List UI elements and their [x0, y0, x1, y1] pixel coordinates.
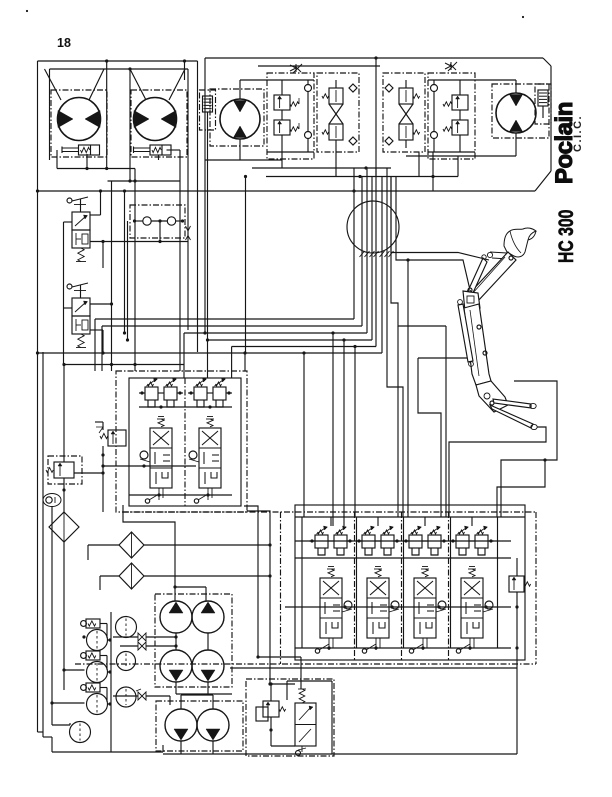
funnel above motor M1 — [45, 69, 62, 100]
wire bank feed x344 — [342, 338, 345, 341]
wire bank4 bottom solid — [230, 667, 517, 669]
wire motor block vertical M2 right — [184, 61, 186, 80]
excavator boom upper — [464, 304, 491, 385]
wire fan drop x245 — [244, 353, 246, 371]
wire fan drop x231 — [231, 347, 233, 379]
motor M1 — [58, 98, 101, 141]
wire pump P1 to blocks — [239, 80, 241, 99]
wire stairs E step — [418, 358, 441, 517]
lever valve V2 — [67, 284, 72, 289]
wire motor block center vertical 1 — [106, 61, 108, 169]
bottom box dash-dot enclosure — [246, 679, 334, 756]
wire x63 vertical upper — [63, 222, 65, 365]
bank4 bottom bus — [295, 647, 511, 649]
wire right assembly drop x419 — [418, 152, 420, 177]
pump P2 — [496, 93, 536, 133]
filter F2 diamond — [119, 532, 144, 558]
compensator unit W2 — [86, 651, 100, 660]
drain filter D2 — [538, 90, 548, 106]
wire x122 vertical — [124, 191, 126, 333]
wire bank2 out elbow B — [247, 511, 270, 517]
wire stairs A drop x398 — [397, 326, 399, 517]
svg-text:HC 300: HC 300 — [554, 210, 578, 263]
wire stairs A drop x446 — [445, 326, 447, 517]
wire bus y181 — [108, 180, 181, 182]
wire gauges to pumps — [113, 636, 138, 638]
wire filter F3 line — [100, 575, 119, 577]
brake valve B2 — [150, 145, 171, 155]
pump pair G3 (down) — [165, 709, 197, 741]
gauge T3 — [116, 687, 136, 707]
wire y657 jog — [258, 656, 301, 658]
wire pump G1-G2 links — [175, 633, 177, 650]
wire bundle right stairs A — [391, 258, 446, 326]
wire assembly bottom bus 2 — [281, 152, 283, 168]
port circle L1 top — [305, 85, 312, 92]
wire vertical x180 down — [179, 150, 181, 371]
wire drop x245 upper — [245, 177, 247, 354]
gauge T2 — [117, 652, 136, 671]
wire pump G2 out — [175, 682, 177, 694]
wire R1 internal — [459, 80, 461, 95]
relief valve R1a — [452, 95, 468, 110]
excavator bucket cylinder — [468, 258, 487, 295]
bank4 bus under reliefs — [295, 557, 511, 559]
wire fan drop x207 — [207, 340, 209, 378]
crossover block R2 enclosure — [383, 73, 425, 152]
bank2 outer dash-dot enclosure — [116, 371, 247, 512]
bank4 bus top — [295, 540, 511, 542]
wire R2 cross — [399, 104, 413, 124]
filter F3 diamond — [119, 563, 144, 589]
crossover mark right — [445, 63, 451, 69]
wire bank2 pilot line — [103, 465, 196, 467]
bottom box inner frame — [287, 680, 332, 682]
wire inner box left — [49, 69, 51, 160]
excavator boom cylinder — [458, 304, 473, 362]
wire bottom pump bus — [110, 612, 112, 752]
wire assemblies outer box — [205, 57, 543, 59]
bottom relief valve — [263, 701, 279, 717]
excavator boom elbow — [476, 381, 508, 412]
wire bundle right stairs B — [391, 177, 489, 261]
wire motor block center vertical 2 — [129, 69, 131, 181]
wire left feed lines — [51, 507, 53, 725]
crossover block L2 enclosure — [317, 73, 359, 152]
wire right stairs E — [418, 357, 473, 359]
wire junction dots left — [36, 189, 39, 192]
wire L2 cross — [329, 104, 343, 124]
gauge bottom — [70, 722, 91, 743]
motor M2 — [134, 98, 177, 141]
wire fan drop x184 — [183, 333, 185, 378]
wire vertical x135 down — [134, 169, 136, 372]
wire top-left outer box right — [197, 61, 199, 352]
check valve K3 — [138, 692, 146, 700]
valve R2b — [399, 124, 413, 140]
wire right wrap vertical — [550, 66, 552, 171]
wire right stairs G3 — [497, 460, 545, 517]
wire filter F2 line — [88, 544, 119, 546]
wire bus y168 — [57, 168, 135, 170]
dash-dot enclosure motor M2 — [131, 90, 187, 157]
wire oval bottom elbow — [52, 724, 70, 726]
wire right stairs G1 — [501, 381, 557, 517]
bank4 valve 4 — [458, 527, 468, 534]
wire bank2 out elbow A — [244, 506, 258, 512]
wire pump G3 feeds — [180, 695, 182, 709]
wire inner box top — [50, 68, 189, 70]
bank4 outer dash-dot bottom — [75, 663, 536, 665]
wire inner box right — [187, 69, 189, 330]
wire brake B1 drop — [86, 154, 88, 169]
wire assemblies outer top second — [258, 65, 380, 67]
wire long horizontal y191 — [38, 190, 536, 192]
wire assembly bottom bus 3 — [335, 148, 337, 177]
pressure reducer upper-left — [54, 462, 74, 478]
wire bank feed x355 — [353, 345, 356, 348]
wire extra relief top — [516, 558, 518, 576]
wire bank2 verticals inside — [184, 378, 186, 506]
bank2 valve 1 — [147, 379, 157, 386]
wire bank4 feed drop x333 — [331, 331, 334, 334]
bottom valve pilot — [301, 746, 303, 752]
crossover mark left — [290, 65, 296, 71]
wire extra relief drop — [516, 592, 518, 754]
svg-text:C.I.C.: C.I.C. — [572, 115, 584, 152]
pump pair G2 (down) — [160, 650, 192, 682]
filter F1 diamond — [49, 512, 79, 542]
check valve K2 — [138, 642, 146, 650]
port circle R1 bottom — [431, 132, 438, 139]
page speck top-left — [26, 10, 28, 12]
wire lever valve V2 connections — [90, 303, 112, 305]
excavator joint cluster — [463, 291, 480, 311]
port circle L1 bottom — [305, 132, 312, 139]
wire bank2 bottom bus — [129, 494, 232, 496]
wire stairs A drop x304 — [302, 351, 305, 354]
wire right stairs C — [396, 177, 470, 291]
bank4 extra relief — [509, 576, 524, 592]
wire lever valve V1 connections — [90, 214, 101, 216]
bank4 inner top line — [295, 516, 525, 518]
wire bottom horizontals — [52, 751, 163, 753]
wire cw left rail — [82, 635, 85, 638]
wire reducer connections — [102, 446, 104, 512]
compensator unit W1 — [86, 619, 100, 628]
wire vertical x57 — [56, 150, 58, 169]
wire right assembly drop x458 — [457, 156, 459, 177]
svg-text:18: 18 — [57, 36, 71, 50]
port circle R1 top — [431, 85, 438, 92]
wire left tank line vertical — [37, 61, 39, 732]
lever valve V1 — [67, 198, 72, 203]
bank4 solid walls — [301, 517, 303, 648]
relief valve L1b — [274, 120, 290, 135]
pump pair G1 (up) — [160, 601, 192, 633]
wire x301 drop to spring — [300, 657, 302, 689]
bank4 outer dash-dot top — [123, 511, 536, 513]
pump group G1 enclosure — [155, 594, 232, 687]
dash-dot enclosure motor M1 — [51, 90, 107, 157]
funnel above motor M2 — [130, 69, 146, 100]
valve L2a — [329, 88, 343, 104]
wire left fan lines — [353, 258, 355, 319]
wire fan drop x102 — [101, 326, 103, 371]
pump group G3 enclosure — [156, 701, 243, 751]
wire drop x258 lower — [257, 512, 259, 657]
port diamond L2 top — [349, 84, 357, 92]
wire gauge drain y241 — [90, 241, 188, 243]
bank4 outer dash-dot right — [535, 512, 537, 664]
bank4 valve 3 — [411, 527, 421, 534]
compensator unit W3 — [86, 683, 100, 692]
excavator stick cylinder 2 — [490, 405, 533, 428]
wire lever valves left ports — [64, 221, 73, 223]
port diamond L2 bottom — [349, 137, 357, 145]
wire bottom long horizontal — [163, 753, 517, 755]
wire bank2 bus top — [139, 406, 232, 408]
wire assembly bottom bus 1 — [205, 159, 240, 161]
wire right wrap chamfer bottom — [535, 171, 551, 191]
wire pump P2 to blocks — [515, 80, 517, 93]
pump P1 dash-dot enclosure — [210, 89, 264, 146]
bank4 valve 1 — [317, 527, 327, 534]
valve R2a — [399, 88, 413, 104]
excavator bucket — [504, 228, 536, 257]
gauge oval — [43, 494, 61, 507]
excavator stick cylinder 1 — [493, 399, 531, 408]
wire fan drop x95 — [94, 319, 96, 371]
bank4 solid frame — [295, 505, 525, 660]
wire pump G1 feeds — [123, 505, 175, 601]
wire right wrap chamfer top — [543, 58, 551, 66]
bank4 separators — [354, 512, 356, 660]
wire gauge ports line — [135, 220, 143, 222]
port diamond R2 bottom — [385, 137, 393, 145]
wire bus y364 — [64, 364, 184, 366]
relief valve L1a — [274, 95, 290, 110]
bank2 inner enclosure — [129, 378, 241, 506]
wire right stairs D — [387, 258, 403, 517]
wire filter F1 vert — [63, 542, 65, 690]
brake valve B1 — [79, 145, 100, 155]
wire filter left verticals — [87, 545, 89, 560]
bank4 valve 2 — [364, 527, 374, 534]
gauge T1 — [116, 617, 137, 638]
check valve K1 — [138, 633, 146, 641]
swivel joint circle — [347, 201, 399, 253]
bank2 pressure reducer — [108, 430, 126, 446]
pump P1 — [220, 99, 260, 139]
wire right stairs G2 — [449, 427, 546, 517]
wire reducer vert — [63, 365, 65, 463]
gauge ports enclosure — [130, 205, 185, 238]
wire L1 internal — [281, 80, 283, 95]
wire bundle verticals — [353, 168, 355, 258]
wire brake B2 drop — [167, 149, 181, 151]
wire bundle feed from top box — [374, 56, 377, 59]
gauge port circle 1 — [143, 217, 151, 225]
vent mark V — [186, 226, 191, 231]
wire right assembly drop x433 — [432, 152, 434, 191]
wire bank4 top stubs — [330, 517, 332, 526]
page speck top-right — [522, 16, 524, 18]
drain filter D1 — [203, 96, 213, 112]
gauge port circle 2 — [167, 217, 175, 225]
valve L2b — [329, 124, 343, 140]
wire pump G3 out — [180, 741, 182, 754]
wire drop x269 to bottom box — [269, 517, 271, 684]
wire top-left outer box top — [38, 60, 198, 62]
wire bottom box connections — [270, 684, 272, 701]
excavator bucket linkage — [490, 252, 507, 253]
bank2 valve 2 — [196, 379, 206, 386]
wire vertical x111 down — [111, 181, 113, 371]
pump P2 dash-dot enclosure — [492, 84, 549, 138]
relief valve block R1 enclosure — [428, 73, 475, 159]
bank4 pilot bus — [285, 606, 511, 608]
wire bundle tick marks — [360, 251, 365, 257]
bank4 dash-dot left — [280, 512, 282, 664]
bottom 3way valve — [295, 703, 316, 746]
excavator stick — [469, 252, 516, 302]
wire y684 into bottom box — [270, 683, 295, 685]
relief valve block L1 enclosure — [267, 73, 314, 159]
relief valve R1b — [452, 120, 468, 135]
wire x127 vertical — [127, 221, 129, 340]
wire stairs C drop x408 — [406, 258, 409, 261]
wire reducer to bank2 pilot — [74, 472, 103, 474]
port diamond R2 top — [385, 84, 393, 92]
